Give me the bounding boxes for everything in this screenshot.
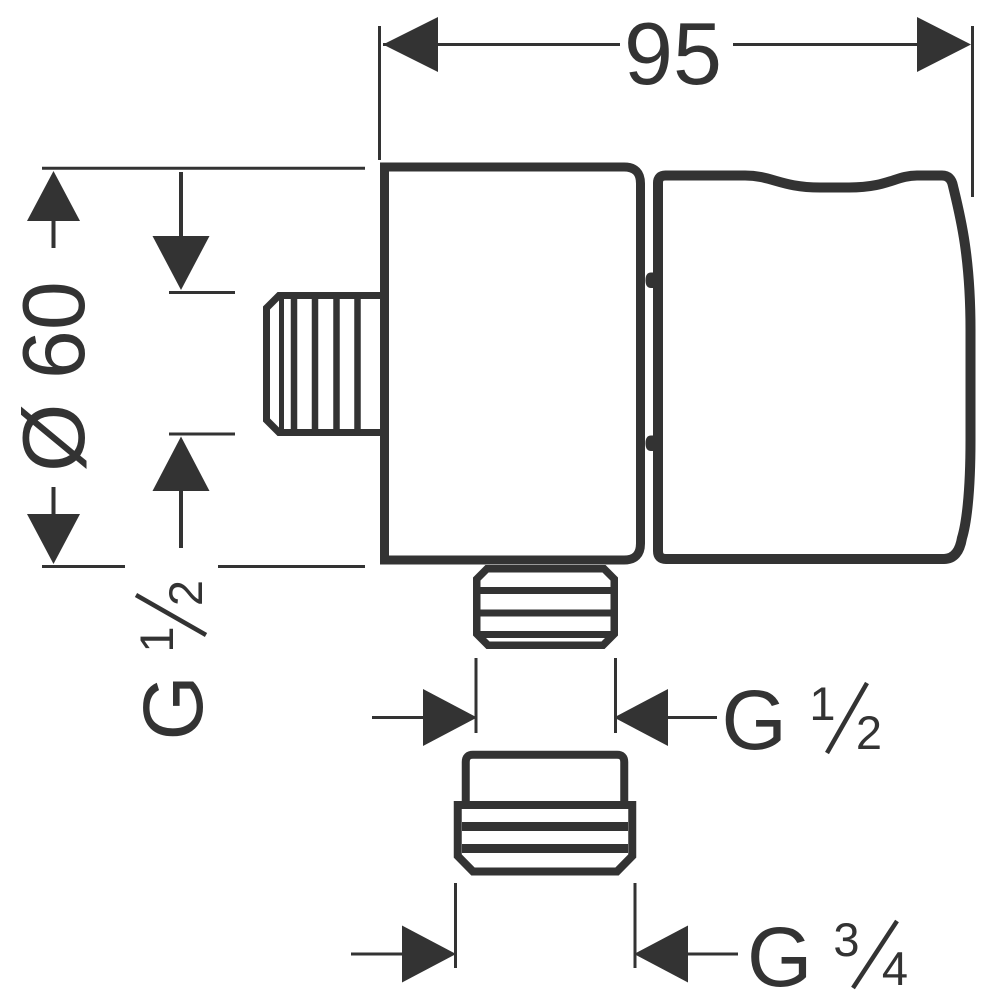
dimension 95: right arrowhead — [917, 17, 971, 72]
svg-text:3: 3 — [833, 913, 859, 966]
svg-text:4: 4 — [882, 942, 908, 995]
dimension O60: top extension line — [42, 167, 365, 170]
side port pointer: lower up arrowhead — [153, 437, 210, 492]
side port pointer: upper tick line — [169, 291, 235, 294]
side threaded port G1/2: chamfer boundary line — [279, 299, 284, 429]
dimension 95: right extension line — [971, 26, 974, 197]
side threaded port G1/2: outline — [267, 296, 386, 433]
bottom threaded port G1/2: outline — [477, 569, 615, 646]
union nut G3/4: lower hex body — [458, 805, 633, 872]
handle body (right, with grip wave) — [658, 176, 971, 560]
dimension O60: up arrowhead — [27, 171, 80, 221]
bottom threaded port G1/2: thread line 2 — [480, 610, 611, 617]
svg-text:G: G — [747, 910, 812, 1000]
dimension O60: bottom extension line left segment — [42, 565, 125, 568]
label G 3/4 (bottom right) — [747, 910, 908, 1000]
dimension G1/2: left leader line — [372, 716, 423, 719]
bottom threaded port G1/2: thread line 3 — [480, 631, 611, 638]
valve body (front square) — [385, 167, 641, 560]
union nut G3/4: thread line 1 — [462, 822, 628, 831]
side port pointer: lower stem — [179, 491, 183, 548]
dimension 95: left extension line — [378, 26, 381, 160]
dimension G3/4: right leader line — [688, 953, 738, 956]
side port pointer: lower tick line — [169, 433, 235, 436]
side port pointer: upper stem — [179, 172, 183, 239]
svg-text:G: G — [126, 675, 220, 740]
side port pointer: upper down arrowhead — [153, 236, 210, 290]
label G 1/2 (right) — [722, 673, 883, 767]
dimension G3/4: left extension line — [454, 883, 457, 968]
dimension 95: dimension line right segment — [733, 43, 922, 46]
dimension G1/2: right leader line — [668, 716, 717, 719]
side threaded port G1/2: thread line 1 — [291, 296, 298, 432]
dimension 95: left arrowhead — [383, 17, 438, 72]
dimension O60: up arrow stem — [52, 221, 56, 248]
dimension 95: dimension line left segment — [383, 43, 620, 46]
svg-text:1: 1 — [130, 626, 183, 652]
union nut G3/4: thread line 2 — [462, 844, 628, 853]
dimension O60: down arrow stem — [52, 487, 56, 514]
connector tab upper — [646, 273, 657, 289]
dimension G1/2: left extension line — [475, 658, 478, 733]
dimension G1/2: right arrowhead — [614, 689, 668, 746]
dimension G3/4: right extension line — [634, 883, 637, 968]
rotated label G 1/2 (left side) — [126, 580, 220, 741]
dimension O60: down arrowhead — [27, 514, 80, 564]
side threaded port G1/2: thread line 4 — [354, 296, 361, 432]
side threaded port G1/2: thread line 3 — [333, 296, 340, 432]
dimension G3/4: left leader line — [351, 953, 402, 956]
svg-text:G: G — [722, 673, 787, 767]
connector tab lower — [646, 436, 657, 452]
svg-text:2: 2 — [159, 580, 212, 606]
dimension G3/4: right arrowhead — [634, 926, 688, 983]
dimension G3/4: left arrowhead — [402, 926, 456, 983]
dimension O60: bottom extension line right segment — [218, 565, 365, 568]
union nut G3/4: upper collar — [466, 755, 625, 804]
svg-text:95: 95 — [624, 4, 722, 103]
bottom threaded port G1/2: thread line 1 — [480, 587, 611, 594]
svg-text:Ø 60: Ø 60 — [4, 281, 103, 472]
svg-text:2: 2 — [856, 706, 882, 759]
side threaded port G1/2: thread line 2 — [312, 296, 319, 432]
svg-text:1: 1 — [809, 677, 835, 730]
dimension G1/2: left arrowhead — [423, 689, 477, 746]
dimension G1/2: right extension line — [614, 658, 617, 733]
